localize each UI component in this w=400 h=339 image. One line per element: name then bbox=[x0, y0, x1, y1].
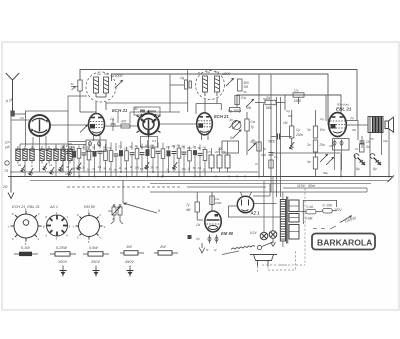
svg-text:2x: 2x bbox=[111, 217, 116, 221]
svg-text:Ca: Ca bbox=[97, 72, 101, 76]
110/220 switch bbox=[340, 216, 352, 223]
svg-text:c2: c2 bbox=[49, 163, 53, 167]
svg-text:AZ 1: AZ 1 bbox=[49, 205, 58, 209]
mains cord and switch bottom bbox=[231, 242, 273, 250]
wire antenna down to bus bbox=[10, 114, 12, 177]
svg-text:2M: 2M bbox=[243, 85, 249, 89]
wire top bus 2 bbox=[112, 74, 329, 125]
junction dots bbox=[215, 176, 217, 178]
svg-text:0-6M: 0-6M bbox=[305, 217, 313, 221]
svg-text:2k: 2k bbox=[108, 146, 112, 150]
svg-text:1k: 1k bbox=[355, 147, 359, 151]
svg-text:25: 25 bbox=[91, 167, 95, 171]
svg-text:2k: 2k bbox=[81, 166, 85, 170]
svg-text:Ca: Ca bbox=[20, 116, 24, 120]
svg-text:Cd: Cd bbox=[196, 223, 200, 227]
terminal P1 bbox=[5, 161, 9, 165]
wires tube to transformer bbox=[346, 120, 358, 122]
coil cluster under V1 bbox=[16, 146, 20, 164]
svg-text:450V: 450V bbox=[125, 260, 134, 264]
vertical feeds from bus to lamps bbox=[253, 177, 273, 232]
tube AZ1 bbox=[237, 196, 253, 212]
svg-text:0,1: 0,1 bbox=[198, 166, 202, 170]
svg-text:Ca: Ca bbox=[206, 70, 210, 74]
svg-text:x2: x2 bbox=[254, 162, 258, 166]
svg-text:0,25W: 0,25W bbox=[56, 246, 67, 250]
svg-text:6n: 6n bbox=[156, 165, 159, 169]
cap stack right of tube bbox=[360, 136, 365, 148]
svg-text:10n: 10n bbox=[320, 128, 326, 132]
svg-text:a1: a1 bbox=[18, 163, 22, 167]
dial lamps bbox=[260, 231, 277, 240]
svg-text:50: 50 bbox=[151, 166, 154, 170]
svg-text:7Ω: 7Ω bbox=[4, 169, 9, 173]
tube EM80 bbox=[205, 211, 221, 232]
verticals from top buses bbox=[170, 70, 326, 198]
resistor+cap hanging on x=187.7 bbox=[185, 80, 188, 89]
ground bus lines bbox=[10, 171, 258, 173]
svg-text:1M: 1M bbox=[133, 107, 138, 111]
svg-text:2k: 2k bbox=[81, 145, 85, 149]
svg-text:50μ: 50μ bbox=[323, 171, 328, 175]
capacitor on left of box x=80 bbox=[78, 80, 82, 91]
svg-text:1W: 1W bbox=[126, 245, 132, 249]
svg-text:6n: 6n bbox=[182, 145, 185, 149]
svg-text:0,5: 0,5 bbox=[140, 167, 144, 171]
svg-text:220V: 220V bbox=[333, 208, 342, 212]
svg-text:100n: 100n bbox=[296, 133, 303, 137]
svg-text:0,5: 0,5 bbox=[166, 145, 170, 149]
svg-text:50: 50 bbox=[72, 145, 75, 149]
tiny labels under coils bbox=[18, 163, 67, 176]
cap 500n bbox=[271, 136, 276, 138]
trimmer area right of V4 bbox=[232, 121, 241, 130]
tube V4 bbox=[197, 113, 213, 140]
tick marks above box bbox=[313, 226, 336, 229]
svg-text:16μ: 16μ bbox=[383, 139, 388, 143]
wires circle to tube2 bbox=[95, 102, 97, 113]
wire bus 3 bbox=[237, 95, 341, 113]
transformer T-out bbox=[368, 117, 383, 133]
svg-text:0,1A: 0,1A bbox=[307, 205, 314, 209]
pinout 2 bbox=[44, 211, 71, 241]
svg-text:Cy: Cy bbox=[296, 128, 300, 132]
svg-text:8μ: 8μ bbox=[356, 167, 360, 171]
svg-text:50n: 50n bbox=[246, 106, 252, 110]
svg-text:70: 70 bbox=[114, 168, 117, 172]
svg-text:70: 70 bbox=[140, 145, 143, 149]
pin box under V4 bbox=[222, 141, 239, 153]
svg-text:ECH 21: ECH 21 bbox=[112, 108, 128, 113]
svg-text:8n: 8n bbox=[151, 144, 154, 148]
tube V3 bbox=[137, 111, 161, 138]
svg-text:2n: 2n bbox=[306, 143, 311, 147]
small box above tube3 bbox=[134, 107, 160, 115]
svg-text:Cw: Cw bbox=[241, 96, 246, 100]
fuse row bbox=[299, 209, 337, 214]
svg-text:8n: 8n bbox=[124, 166, 127, 170]
svg-text:50: 50 bbox=[193, 166, 196, 170]
svg-text:1n: 1n bbox=[193, 145, 196, 149]
svg-text:Ty: Ty bbox=[251, 125, 255, 129]
wire y=103 bbox=[106, 102, 188, 104]
wires box to tube2 region bbox=[68, 96, 87, 145]
svg-text:5n: 5n bbox=[230, 136, 234, 140]
svg-text:5n: 5n bbox=[366, 145, 370, 149]
svg-text:4M: 4M bbox=[186, 208, 191, 212]
svg-text:1n: 1n bbox=[166, 168, 169, 172]
svg-text:EBL 21: EBL 21 bbox=[336, 107, 352, 112]
bus3 components bbox=[293, 93, 304, 97]
dashed circle L1 bbox=[86, 72, 116, 102]
svg-text:3n: 3n bbox=[71, 82, 75, 86]
svg-text:3300: 3300 bbox=[294, 99, 302, 103]
svg-text:8μ: 8μ bbox=[373, 167, 377, 171]
svg-text:Cg: Cg bbox=[110, 117, 114, 121]
svg-text:30: 30 bbox=[92, 146, 95, 150]
resistor right of IF bbox=[238, 79, 243, 91]
svg-text:10k: 10k bbox=[108, 209, 113, 213]
svg-text:470: 470 bbox=[121, 120, 127, 124]
mains box bbox=[303, 200, 336, 224]
svg-text:0,1: 0,1 bbox=[124, 146, 128, 150]
svg-text:50n: 50n bbox=[103, 146, 108, 150]
svg-text:1M: 1M bbox=[283, 121, 288, 125]
wires from transformer top to bus bbox=[282, 192, 284, 200]
pins under EM80 bbox=[208, 235, 218, 244]
svg-text:AZ 1: AZ 1 bbox=[250, 211, 261, 216]
svg-text:2n: 2n bbox=[144, 144, 148, 148]
svg-text:7n: 7n bbox=[350, 117, 354, 121]
svg-text:Cw: Cw bbox=[251, 120, 256, 124]
pickup / speaker bottom bbox=[250, 255, 277, 267]
svg-text:2Ω: 2Ω bbox=[2, 185, 8, 189]
tube V2 bbox=[89, 114, 105, 142]
mains switch diagonal right bbox=[388, 176, 395, 183]
svg-text:6,3V: 6,3V bbox=[250, 231, 257, 235]
svg-text:50: 50 bbox=[177, 144, 180, 148]
svg-text:250V: 250V bbox=[90, 260, 100, 264]
svg-text:ECH 21: ECH 21 bbox=[214, 114, 229, 119]
transformer T-power bbox=[280, 197, 299, 244]
antenna series coil bbox=[10, 111, 14, 117]
svg-text:2n: 2n bbox=[118, 166, 122, 170]
svg-text:25n: 25n bbox=[319, 143, 326, 147]
svg-text:Tb: Tb bbox=[370, 137, 374, 141]
svg-text:50: 50 bbox=[223, 150, 226, 154]
svg-text:BARKAROLA: BARKAROLA bbox=[317, 238, 372, 248]
svg-text:3n: 3n bbox=[307, 128, 311, 132]
svg-text:2M: 2M bbox=[171, 144, 176, 148]
svg-text:1n: 1n bbox=[196, 237, 200, 241]
svg-text:0,1W: 0,1W bbox=[21, 246, 30, 250]
resistor column x=247 bbox=[245, 119, 249, 131]
svg-text:t2: t2 bbox=[214, 248, 217, 252]
svg-text:0,5W: 0,5W bbox=[89, 246, 98, 250]
svg-text:EM 80: EM 80 bbox=[221, 231, 234, 236]
svg-text:100V: 100V bbox=[58, 260, 67, 264]
svg-text:6,3: 6,3 bbox=[152, 139, 157, 143]
wire top bus 1 bbox=[80, 70, 357, 121]
svg-text:1n: 1n bbox=[135, 144, 138, 148]
svg-text:1n: 1n bbox=[109, 167, 112, 171]
svg-text:110V 50er: 110V 50er bbox=[297, 184, 316, 188]
svg-text:100k: 100k bbox=[215, 201, 222, 205]
svg-text:Ty: Ty bbox=[186, 203, 190, 207]
svg-text:3n: 3n bbox=[229, 118, 233, 122]
svg-text:Cb: Cb bbox=[274, 155, 278, 159]
svg-text:Cy: Cy bbox=[294, 89, 298, 93]
tube V1 circle with arcs bbox=[29, 115, 50, 136]
svg-text:500n: 500n bbox=[268, 140, 275, 144]
wires around V3 bbox=[105, 110, 196, 151]
antenna bbox=[6, 73, 19, 114]
svg-text:88n: 88n bbox=[266, 106, 272, 110]
svg-text:30n: 30n bbox=[187, 146, 192, 150]
input box bbox=[26, 111, 69, 146]
pinout 3 bbox=[73, 209, 106, 245]
svg-text:10: 10 bbox=[87, 167, 90, 171]
svg-text:50mVout: 50mVout bbox=[337, 103, 349, 107]
svg-text:5n: 5n bbox=[263, 147, 267, 151]
junction and line right at y=154 bbox=[271, 152, 341, 154]
verticals to ground bus bbox=[355, 129, 389, 177]
svg-text:±1000: ±1000 bbox=[112, 74, 123, 78]
pinout 1 bbox=[8, 207, 45, 246]
svg-text:0,5: 0,5 bbox=[207, 150, 211, 154]
svg-text:25: 25 bbox=[118, 145, 122, 149]
extra parts on verticals x=259/263.5/271 bbox=[257, 142, 274, 168]
svg-text:25n: 25n bbox=[328, 144, 334, 148]
pin box under V2 bbox=[86, 140, 106, 152]
svg-text:Tg: Tg bbox=[266, 96, 270, 100]
speaker bbox=[385, 117, 394, 132]
wires around tube V1 bbox=[11, 120, 89, 177]
svg-text:4n: 4n bbox=[307, 160, 311, 164]
svg-text:0,1: 0,1 bbox=[98, 165, 102, 169]
svg-text:25n: 25n bbox=[60, 145, 66, 149]
svg-text:EM 80: EM 80 bbox=[84, 205, 96, 209]
svg-text:Cg: Cg bbox=[320, 117, 324, 121]
ground under bus left bbox=[8, 177, 14, 199]
svg-text:5n: 5n bbox=[61, 168, 64, 172]
svg-text:Cg: Cg bbox=[180, 76, 184, 80]
pin box under tube3 bbox=[141, 137, 158, 148]
svg-text:0,-15A: 0,-15A bbox=[323, 204, 332, 208]
RC coupling network cluster (resistors/capacitors) bbox=[60, 140, 231, 177]
dashed circle IF1 bbox=[196, 71, 225, 100]
svg-text:2M: 2M bbox=[214, 150, 219, 154]
svg-text:2W: 2W bbox=[159, 245, 166, 249]
svg-text:30: 30 bbox=[66, 165, 69, 169]
svg-text:2k: 2k bbox=[202, 168, 206, 172]
svg-text:25n: 25n bbox=[181, 167, 187, 171]
svg-text:±500: ±500 bbox=[222, 72, 231, 76]
wires bbox=[204, 99, 206, 114]
svg-text:5n: 5n bbox=[87, 146, 90, 150]
column x=315.5 three resistors bbox=[313, 126, 317, 138]
svg-text:Cg: Cg bbox=[286, 109, 290, 113]
between V2 and V3 components bbox=[111, 119, 116, 131]
tube V5 bbox=[329, 113, 347, 137]
pins under V5 bbox=[333, 139, 350, 151]
